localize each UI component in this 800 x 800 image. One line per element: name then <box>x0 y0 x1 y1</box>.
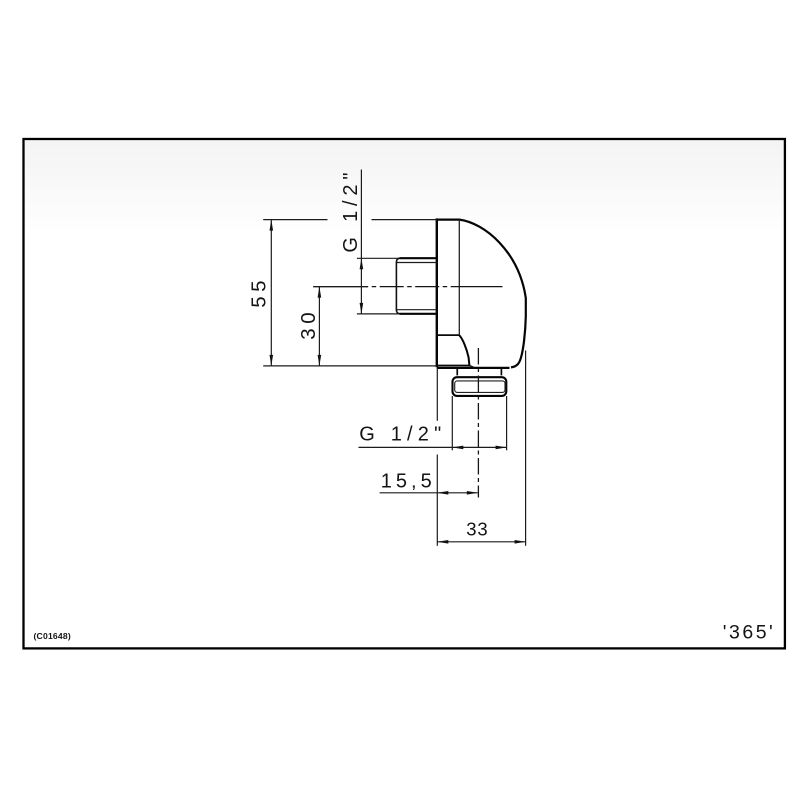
horizontal centerline <box>313 286 502 288</box>
svg-text:G 1/2": G 1/2" <box>340 168 362 253</box>
inlet thread root top <box>397 262 437 264</box>
dimension 33 line <box>437 541 525 543</box>
elbow body top edge <box>436 219 460 221</box>
inlet thread crest top <box>400 257 437 259</box>
outlet neck right <box>500 368 502 376</box>
inlet thread chamfer top <box>396 258 399 262</box>
svg-text:(C01648): (C01648) <box>34 631 71 641</box>
dimension G 1/2 top line <box>360 170 362 314</box>
extension line centerline <box>313 286 368 288</box>
elbow body rounded corner and right edge <box>460 220 526 368</box>
extension line body top <box>263 219 327 221</box>
extension line thread bottom <box>357 313 399 315</box>
inlet thread end face <box>395 262 397 310</box>
svg-text:55: 55 <box>247 276 270 308</box>
outlet neck left <box>456 368 458 376</box>
svg-text:33: 33 <box>466 518 488 539</box>
elbow body bottom edge <box>437 367 510 369</box>
dimension 15,5 line <box>380 492 478 494</box>
extension line thread top <box>357 257 399 259</box>
extension line body right <box>525 351 527 546</box>
extension line outlet right <box>506 396 508 450</box>
svg-text:'365': '365' <box>723 621 775 643</box>
outlet ring nut inner <box>455 381 505 393</box>
outlet ring nut outer <box>453 377 507 396</box>
body silhouette line <box>458 220 460 336</box>
elbow body left edge <box>436 218 438 367</box>
extension line body bottom <box>263 365 437 367</box>
body interior ledge line <box>437 334 459 336</box>
extension line outlet left <box>451 396 453 450</box>
svg-text:30: 30 <box>297 308 320 340</box>
inlet thread chamfer bottom <box>396 310 399 314</box>
dimension 55 line <box>270 220 272 366</box>
dimension G 1/2 bottom line <box>359 446 507 448</box>
extension line outlet axis left <box>436 368 438 421</box>
inlet thread root bottom <box>397 309 437 311</box>
svg-text:15,5: 15,5 <box>381 470 436 492</box>
vertical centerline <box>477 348 479 498</box>
svg-text:G 1/2": G 1/2" <box>359 424 446 446</box>
drawing frame border <box>24 139 785 648</box>
body flare curve <box>459 335 469 365</box>
dimension 30 line <box>318 287 320 366</box>
inlet thread crest bottom <box>400 313 437 315</box>
elbow body bottom ledge <box>437 365 470 367</box>
elbow body bottom ledge ramp <box>470 366 475 368</box>
